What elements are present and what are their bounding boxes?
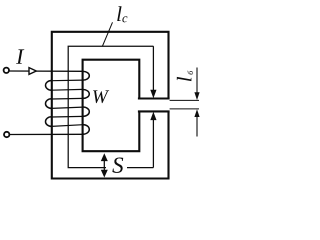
winding turns: right-side arcs (inside window): [83, 71, 89, 134]
label I: [16, 49, 24, 63]
outer dimension upper arrow: [196, 68, 198, 93]
gap arrow down (on mean line): [150, 90, 156, 98]
label lc: [117, 6, 127, 22]
mean path right edge upper (gap dimension): [152, 46, 154, 90]
gap ticks (to outer dimension): [170, 99, 199, 101]
lc leader line: [102, 22, 112, 46]
winding crossing wires: [52, 80, 83, 126]
mean path bottom right segment: [127, 167, 153, 169]
air gap bottom pole face: [138, 110, 170, 112]
terminal top: [4, 68, 9, 73]
core outer outline (with air-gap break in right limb): [52, 32, 169, 179]
section S double arrow: [103, 158, 105, 172]
mean magnetic path l_c (thin inner rectangle): [68, 46, 153, 167]
wire: bottom lead: [10, 133, 83, 135]
air gap top pole face: [138, 97, 170, 99]
terminal bottom: [4, 132, 9, 137]
label S: [112, 157, 123, 172]
mean path right edge lower (gap dimension): [152, 119, 154, 167]
wire: top lead: [9, 70, 83, 72]
S label halo: [107, 157, 128, 175]
outer dimension lower arrow: [196, 117, 198, 137]
label W: [93, 90, 109, 103]
current direction arrow (open triangle): [29, 68, 36, 75]
label l_b (air gap length, rotated 90 CCW): [177, 71, 193, 82]
gap arrow up (on mean line): [150, 112, 156, 120]
core window outline (with air-gap break in right limb): [83, 60, 140, 152]
winding turns: left-side arcs (outside core): [45, 81, 51, 127]
